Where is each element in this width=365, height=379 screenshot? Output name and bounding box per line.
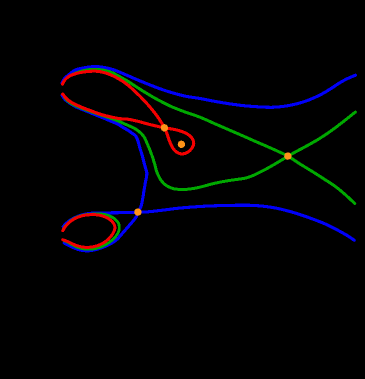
blue level curve: upper open branch	[62, 67, 356, 108]
red level curve: inner oval ring with left gap	[63, 215, 115, 248]
blue level curve: oval top side and shallow right ray	[63, 205, 354, 240]
critical point: local extremum inside red loop	[178, 141, 185, 148]
green level curve: lower branch with valley through saddle	[65, 97, 356, 189]
blue level curve: branch through saddle down to oval bottom	[62, 95, 147, 250]
green level curve: closed oval ring	[63, 214, 119, 250]
critical point: green saddle node	[284, 152, 291, 159]
green level curve: upper branch through saddle	[68, 69, 355, 203]
red level curve: main branch with node and small loop	[62, 71, 193, 154]
critical point: red saddle node	[161, 124, 168, 131]
critical point: blue saddle node	[134, 208, 141, 215]
